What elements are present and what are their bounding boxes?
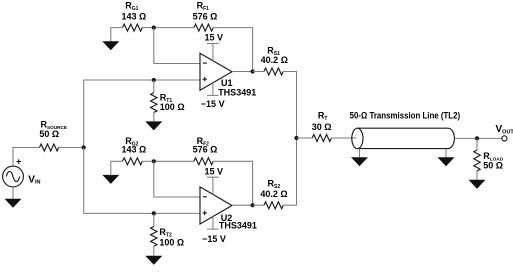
U1 negative supply stub -15V [207, 83, 219, 96]
wire U2 output to node H [232, 204, 253, 206]
node B junction dot (plus input / RT1) [152, 78, 156, 82]
svg-text:+: + [16, 157, 21, 167]
wire RT2 top lead [153, 213, 155, 226]
resistor RLOAD [474, 150, 480, 171]
svg-text:30 Ω: 30 Ω [312, 122, 332, 132]
wire input rail bottom to U2 noninverting input [84, 148, 200, 214]
source VIN circle [3, 166, 24, 187]
node A junction dot (RG1/RF1/inverting) [152, 26, 156, 30]
svg-text:−15 V: −15 V [201, 99, 225, 109]
svg-text:143 Ω: 143 Ω [122, 11, 147, 21]
svg-text:50 Ω: 50 Ω [39, 129, 59, 139]
ground at VIN [5, 199, 22, 208]
wire RSOURCE to input rail node E [59, 147, 84, 149]
U2 negative supply stub -15V [207, 217, 219, 230]
svg-text:−15 V: −15 V [202, 234, 226, 244]
svg-text:40.2 Ω: 40.2 Ω [261, 55, 288, 65]
wire RSOURCE corner to source [13, 148, 40, 167]
wire RG2 to node F [142, 160, 154, 162]
op-amp U2 [200, 187, 232, 224]
wire RF1 feedback to U1 output [213, 28, 252, 72]
U2 minus mark [203, 196, 207, 198]
wire RT1 top lead [153, 80, 155, 93]
resistor RT [312, 135, 331, 142]
wire RG2 left lead to ground corner [111, 161, 123, 175]
node E junction dot (rail / RSOURCE) [82, 145, 86, 149]
wire TL2 right shield to ground [445, 149, 447, 158]
resistor RT1 [151, 93, 157, 113]
wire input rail top to U1 noninverting input [84, 80, 200, 148]
wire node F to RF2 [154, 160, 194, 162]
node H junction dot (U2 out / RF2) [251, 203, 255, 207]
node F junction dot (RG2/RF2/inverting) [152, 159, 156, 163]
svg-text:40.2 Ω: 40.2 Ω [260, 189, 287, 199]
wire U1 output to node C [232, 71, 253, 73]
resistor RG2 [123, 158, 143, 165]
wire node A to RF1 [154, 27, 194, 29]
wire TL2 to output node I [454, 137, 501, 139]
resistor RG1 [123, 24, 143, 31]
resistor RF2 [194, 158, 213, 165]
op-amp U1 [200, 53, 232, 90]
node G junction dot (plus input / RT2) [152, 211, 156, 215]
U1 positive supply stub 15V [207, 44, 219, 61]
svg-text:100 Ω: 100 Ω [159, 237, 184, 247]
transmission line TL2 body [357, 128, 454, 148]
resistor RS2 [264, 202, 283, 209]
wire RG1 to node A [142, 27, 154, 29]
resistor RS1 [264, 68, 283, 75]
node D junction dot (RS1/RS2/RT) [294, 136, 298, 140]
svg-text:15 V: 15 V [204, 167, 223, 177]
svg-text:143 Ω: 143 Ω [122, 145, 147, 155]
VIN sine wave [6, 171, 19, 181]
U1 minus mark [203, 62, 207, 64]
terminal VOUT circle [502, 136, 507, 141]
wire RS2 up to summing node D [283, 138, 296, 205]
wire RLOAD top lead [476, 138, 478, 150]
svg-text:THS3491: THS3491 [219, 221, 257, 231]
wire RG1 left lead to ground corner [111, 28, 123, 42]
U1 plus mark [203, 77, 207, 81]
wire RLOAD bottom lead [476, 171, 478, 180]
ground at TL2 right [438, 157, 455, 166]
wire node F down to U2 inverting input [154, 161, 200, 197]
svg-text:THS3491: THS3491 [218, 88, 256, 98]
resistor RT2 [151, 227, 157, 247]
resistor RF1 [194, 24, 213, 31]
resistor RSOURCE [40, 144, 59, 151]
ground at RLOAD [469, 180, 486, 189]
svg-text:15 V: 15 V [204, 33, 223, 43]
node C junction dot (U1 out / RF1) [251, 69, 255, 73]
svg-text:50 Ω: 50 Ω [483, 161, 503, 171]
wire RS1 to summing node D [283, 72, 296, 139]
ground at RT1 [145, 121, 162, 130]
svg-text:100 Ω: 100 Ω [160, 102, 185, 112]
wire VIN to ground [12, 187, 14, 199]
wire RT to transmission line [331, 137, 356, 139]
wire node H to RS2 [253, 204, 264, 206]
svg-text:576 Ω: 576 Ω [193, 11, 218, 21]
ground at RG2 [102, 175, 119, 184]
svg-text:50-Ω Transmission Line (TL2): 50-Ω Transmission Line (TL2) [350, 111, 461, 121]
U2 positive supply stub 15V [207, 177, 219, 194]
wire node D to RT [297, 137, 313, 139]
ground at TL2 left [351, 157, 368, 166]
U2 plus mark [203, 211, 207, 215]
svg-text:576 Ω: 576 Ω [193, 145, 218, 155]
wire RF2 feedback to U2 output [213, 161, 252, 205]
wire RT1 bottom lead [153, 112, 155, 121]
wire TL2 left shield to ground [359, 149, 361, 158]
wire RT2 bottom lead [153, 246, 155, 256]
ground at RT2 [145, 256, 162, 265]
wire node A down to U1 inverting input [154, 28, 200, 64]
node I junction dot (TL2 out / RLOAD / VOUT) [475, 136, 479, 140]
transmission line TL2 left end ellipse [352, 128, 363, 148]
ground at RG1 [102, 41, 119, 50]
wire node C to RS1 [253, 71, 264, 73]
